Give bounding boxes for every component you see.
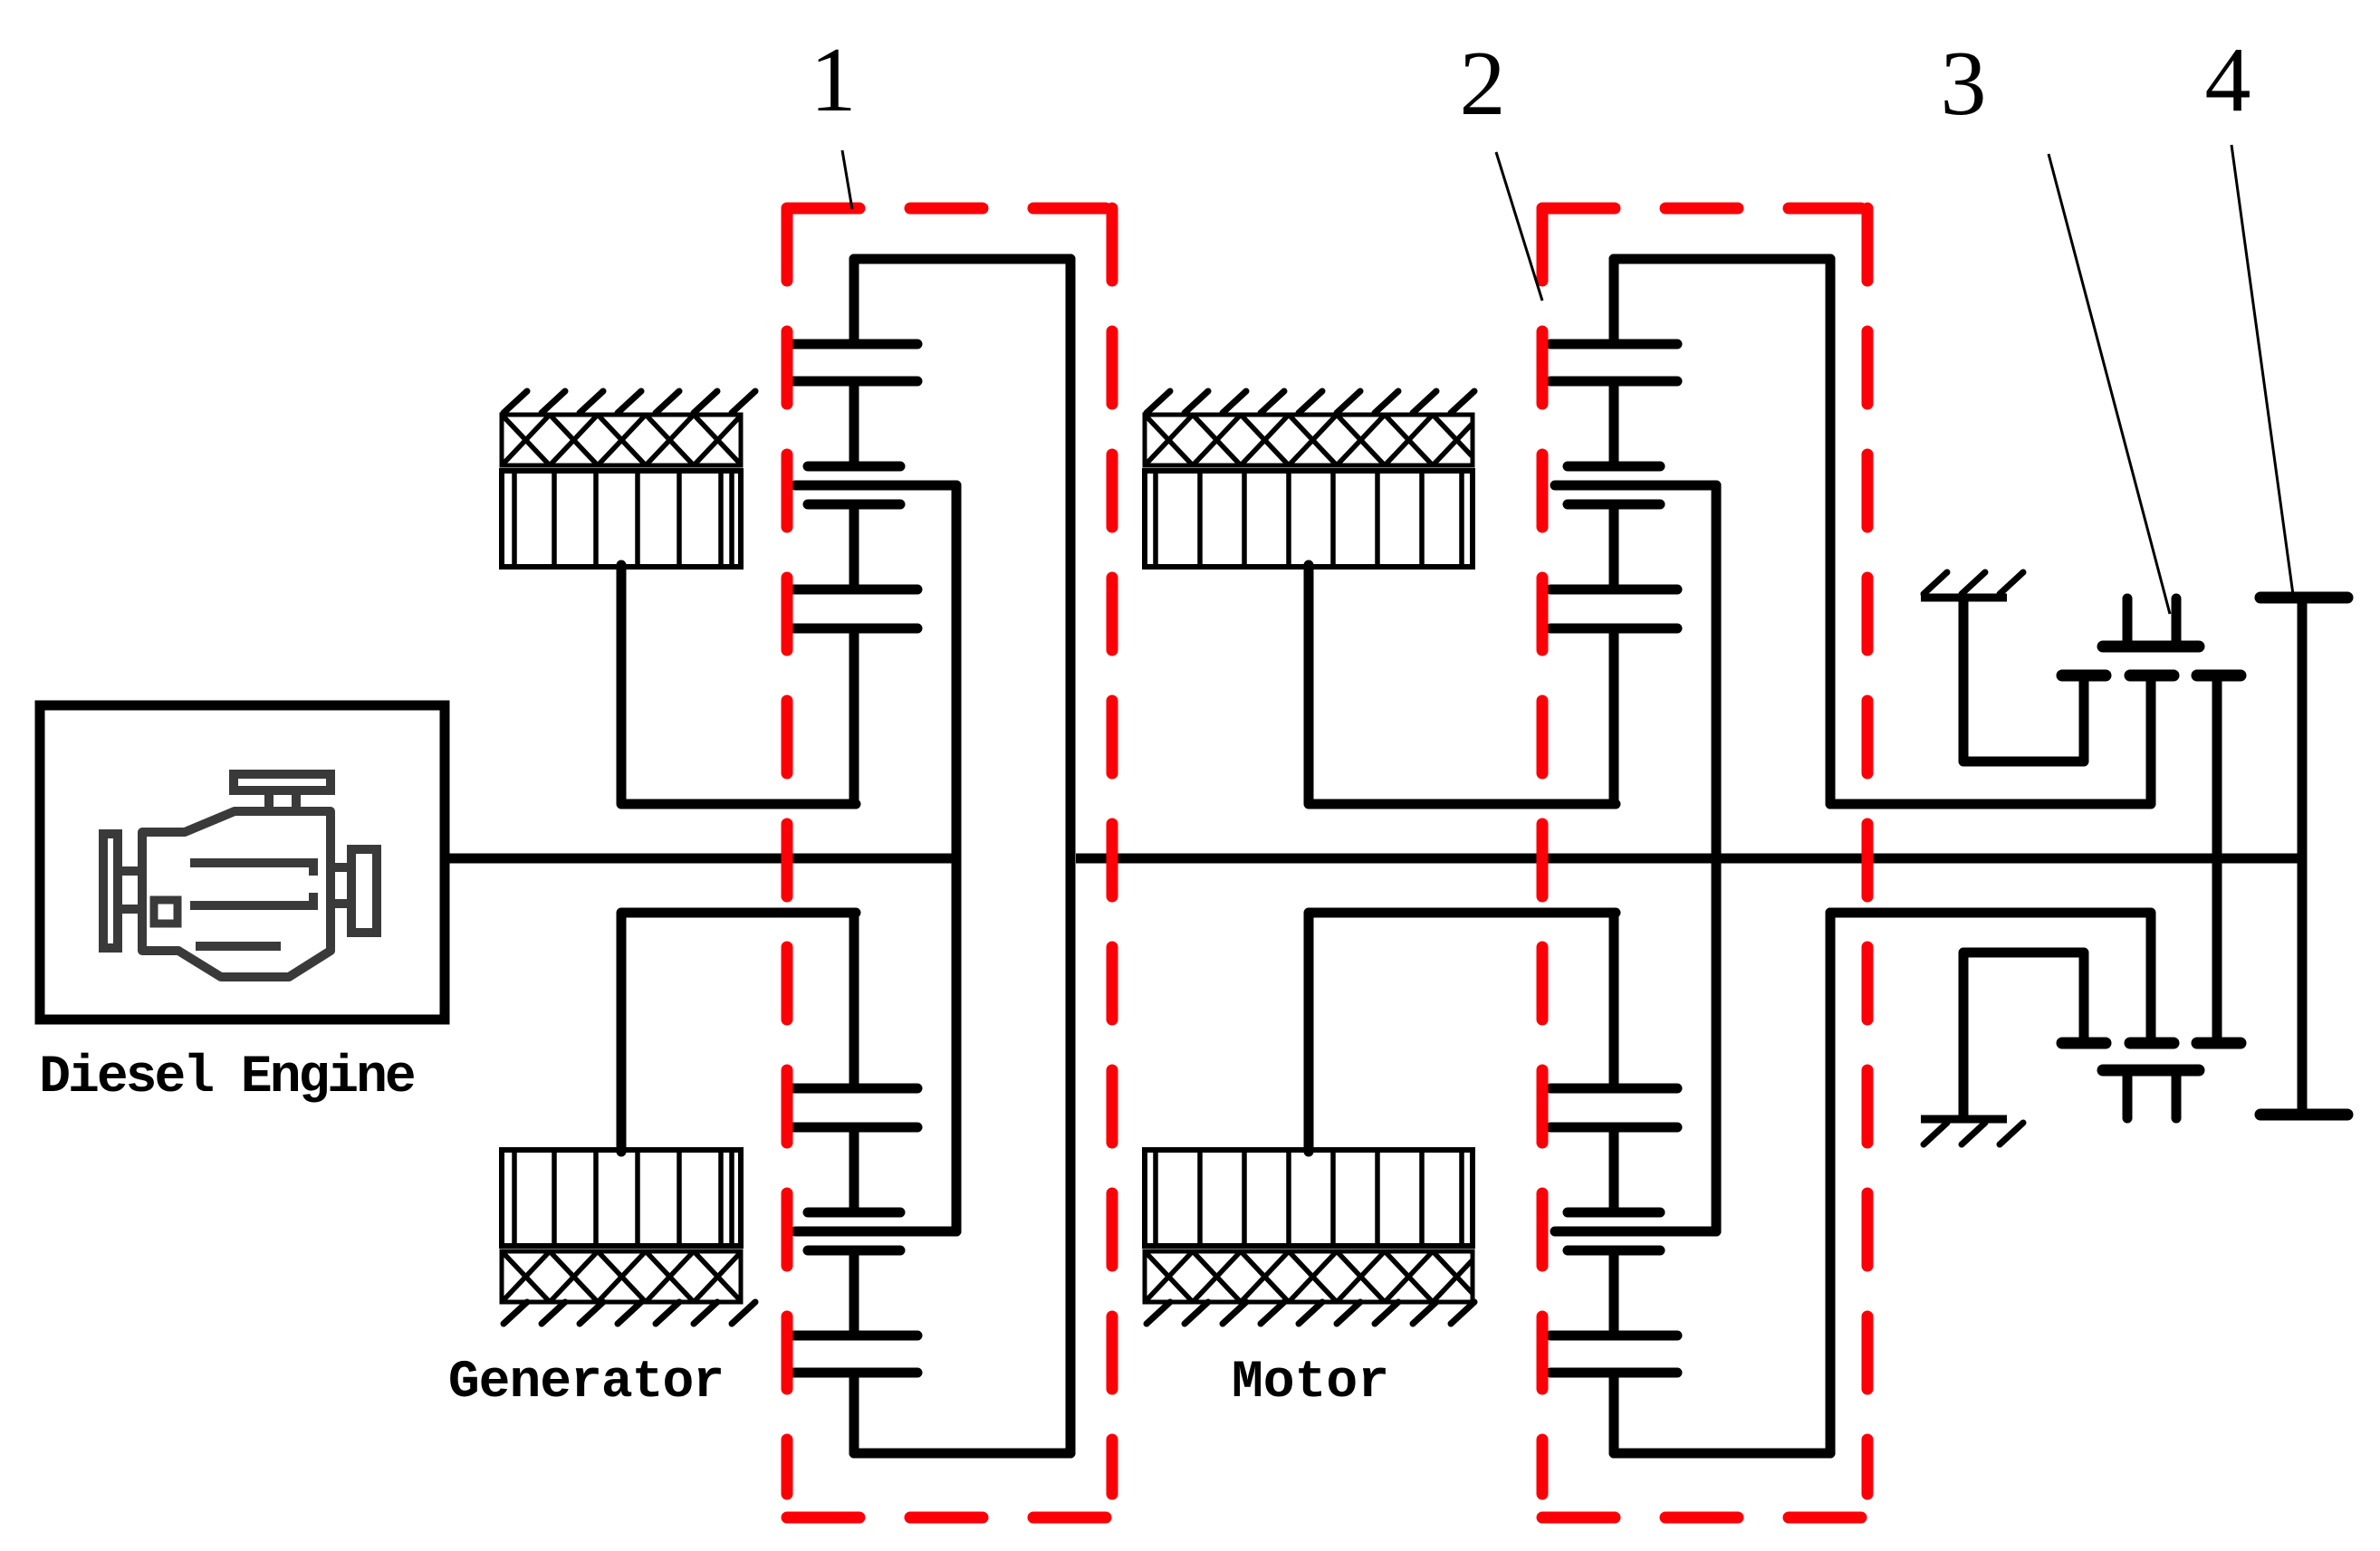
PG1 gear mesh bar <box>791 1368 917 1378</box>
PG2 gear mesh bar <box>1550 624 1677 634</box>
PG2 gear mesh bar <box>1550 585 1677 595</box>
main shaft segment A (engine to PG1 carrier) <box>446 854 961 864</box>
PG2 carrier bar <box>1555 481 1716 491</box>
PG1 sun/ring shaft segment <box>849 628 859 804</box>
motor lower stator <box>1097 1251 1529 1302</box>
motor upper stator ground hatch <box>1147 391 1474 413</box>
PG1 gear mesh bar <box>791 377 917 387</box>
diesel engine box <box>40 705 445 1020</box>
motor lower rotor <box>1145 1150 1473 1246</box>
PG1 carrier shaft <box>952 485 962 1231</box>
PG1 planet gear bar <box>808 1208 900 1218</box>
PG2 sun/ring shaft segment <box>1609 504 1619 589</box>
PG1 gear mesh bar <box>791 585 917 595</box>
PG2 ring right vertical lower <box>1826 913 1836 1453</box>
motor lower stator ground hatch <box>1147 1302 1474 1324</box>
label 4 <box>2205 29 2251 131</box>
PG1 sun/ring shaft segment <box>849 1373 859 1453</box>
PG2 sun/ring shaft segment <box>1609 1373 1619 1453</box>
planetary gear set 1 boundary dashed frame top <box>787 203 1112 215</box>
PG2 ring gear frame <box>1614 259 1830 1453</box>
output gear 4 <box>2260 598 2347 1115</box>
PG1 gear mesh bar <box>791 1331 917 1341</box>
PG1 sun/ring shaft segment <box>849 1250 859 1336</box>
generator upper stator <box>454 415 790 465</box>
PG2 sun/ring shaft segment <box>1609 381 1619 466</box>
svg-text:Motor: Motor <box>1232 1354 1389 1412</box>
clutch plate bar lower <box>2130 1038 2174 1049</box>
engine icon <box>103 774 377 977</box>
svg-text:2: 2 <box>1460 33 1506 135</box>
PG2 sun/ring shaft segment <box>1609 1250 1619 1336</box>
PG1 planet gear bar <box>808 1246 900 1256</box>
generator lower rotor <box>502 1150 741 1246</box>
planetary gear set 1 boundary dashed frame bottom <box>787 1512 1112 1524</box>
ring2 to clutch link upper <box>1830 679 2151 804</box>
label: Generator <box>448 1354 724 1412</box>
PG1 sun/ring shaft segment <box>849 381 859 466</box>
PG1 sun/ring shaft segment <box>849 913 859 1088</box>
motor upper rotor shaft link <box>1309 565 1616 804</box>
generator lower stator <box>454 1251 790 1302</box>
PG1 carrier bar <box>795 1227 956 1237</box>
PG2 planet gear bar <box>1568 500 1660 510</box>
PG2 gear mesh bar <box>1550 340 1677 349</box>
PG2 sun/ring shaft segment <box>1609 628 1619 804</box>
svg-text:Generator: Generator <box>448 1354 724 1412</box>
brake frame upper (grounded) <box>1963 599 2084 761</box>
brake piston 3 lower <box>2103 1070 2199 1118</box>
PG1 carrier bar <box>795 481 956 491</box>
PG2 ring right vertical upper <box>1826 259 1836 804</box>
PG2 planet gear bar <box>1568 1246 1660 1256</box>
planetary gear set 2 boundary dashed frame bottom <box>1542 1512 1867 1524</box>
clutch plate bar lower <box>2062 1038 2106 1049</box>
PG1 planet gear bar <box>808 500 900 510</box>
PG1 sun/ring shaft segment <box>849 259 859 344</box>
label 3 <box>1941 33 1987 135</box>
planetary gear set 2 boundary dashed frame left <box>1537 208 1549 1494</box>
PG2 planet gear bar <box>1568 462 1660 472</box>
label: Diesel Engine <box>39 1048 414 1107</box>
svg-text:Diesel Engine: Diesel Engine <box>39 1048 414 1107</box>
generator lower stator ground hatch <box>504 1302 755 1324</box>
PG1 sun/ring shaft segment <box>849 1127 859 1212</box>
motor lower rotor shaft link <box>1309 913 1616 1152</box>
label 3 leader <box>2049 154 2170 614</box>
label 2 <box>1460 33 1506 135</box>
planetary gear set 1 boundary dashed frame left <box>782 208 793 1494</box>
planetary gear set 1 boundary dashed frame right <box>1107 208 1118 1494</box>
motor upper rotor <box>1145 471 1473 567</box>
clutch plate bar upper <box>2130 670 2174 682</box>
motor upper stator <box>1097 415 1529 465</box>
generator upper stator ground hatch <box>504 391 755 413</box>
generator upper rotor <box>502 471 741 567</box>
clutch plate bar upper <box>2062 670 2106 682</box>
ground symbol upper <box>1921 572 2023 598</box>
planetary gear set 2 boundary dashed frame right <box>1862 208 1874 1494</box>
PG1 gear mesh bar <box>791 340 917 349</box>
generator lower rotor shaft link <box>621 913 856 1152</box>
clutch plate bar lower <box>2197 1038 2241 1049</box>
PG1 ring gear frame <box>854 259 1070 1453</box>
ground symbol lower <box>1921 1119 2023 1144</box>
svg-text:1: 1 <box>811 29 857 131</box>
planetary gear set 2 boundary dashed frame top <box>1542 203 1867 215</box>
label: Motor <box>1232 1354 1389 1412</box>
generator upper rotor shaft link <box>621 565 856 804</box>
svg-text:4: 4 <box>2205 29 2251 131</box>
PG1 gear mesh bar <box>791 1123 917 1133</box>
PG2 gear mesh bar <box>1550 1368 1677 1378</box>
clutch hub vertical <box>2212 679 2222 1039</box>
PG2 sun/ring shaft segment <box>1609 913 1619 1088</box>
PG2 gear mesh bar <box>1550 1331 1677 1341</box>
PG2 gear mesh bar <box>1550 377 1677 387</box>
PG2 sun/ring shaft segment <box>1609 259 1619 344</box>
PG2 gear mesh bar <box>1550 1123 1677 1133</box>
label 4 leader <box>2231 145 2294 601</box>
PG2 carrier shaft <box>1712 485 1722 1231</box>
brake frame lower (grounded) <box>1963 953 2084 1117</box>
PG1 planet gear bar <box>808 462 900 472</box>
PG2 sun/ring shaft segment <box>1609 1127 1619 1212</box>
PG1 gear mesh bar <box>791 624 917 634</box>
PG1 sun/ring shaft segment <box>849 504 859 589</box>
ring2 to clutch link lower <box>1830 913 2151 1039</box>
PG2 planet gear bar <box>1568 1208 1660 1218</box>
brake piston 3 upper <box>2103 598 2199 646</box>
label 1 <box>811 29 857 131</box>
clutch plate bar upper <box>2197 670 2241 682</box>
label 1 leader <box>842 150 852 209</box>
label 2 leader <box>1496 152 1542 301</box>
PG2 carrier bar <box>1555 1227 1716 1237</box>
svg-text:3: 3 <box>1941 33 1987 135</box>
main shaft segment B (PG1 ring to output gear 4) <box>1076 854 2302 864</box>
PG2 gear mesh bar <box>1550 1084 1677 1094</box>
PG1 gear mesh bar <box>791 1084 917 1094</box>
